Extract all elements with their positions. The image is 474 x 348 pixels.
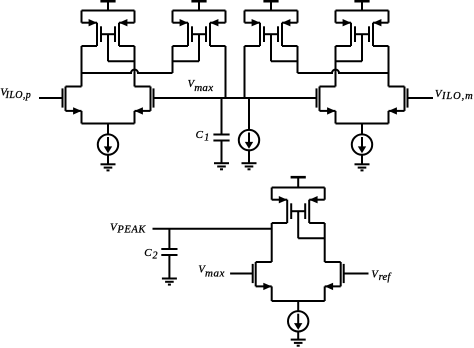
ground (comparator tail) <box>291 340 306 346</box>
wire C2 to ground <box>168 255 170 279</box>
svg-text:C: C <box>196 129 204 141</box>
label capacitor C1 value <box>196 129 210 143</box>
pmos P7 <box>336 19 356 46</box>
wire gate tie (block C) <box>264 34 298 61</box>
nmos M5 <box>253 262 272 290</box>
wire I4 to ground <box>297 332 299 340</box>
wire Vmax to I2 <box>248 98 250 130</box>
pmos P5 <box>245 19 265 46</box>
power VDD (block E) <box>291 176 306 188</box>
wire C1 to ground <box>221 141 223 164</box>
wire block B diode drop <box>172 46 174 73</box>
wire M2 drain to P2 <box>134 46 136 87</box>
wire gate tie (block E) <box>291 211 325 238</box>
wire node Vmax rail <box>154 97 317 99</box>
pmos P4 <box>206 19 226 46</box>
ground (right tail) <box>355 164 370 170</box>
pmos P10 <box>305 196 325 223</box>
pmos P6 <box>278 19 298 46</box>
ground (left tail) <box>101 164 116 170</box>
power VDD (block B) <box>191 0 206 11</box>
svg-text:PEAK: PEAK <box>116 225 146 236</box>
wire left tail <box>82 111 135 135</box>
svg-text:2: 2 <box>153 250 158 261</box>
ground (C1) <box>214 163 229 169</box>
current source I4 (comparator tail) <box>288 311 308 331</box>
wire gate tie (block D) <box>336 34 370 61</box>
wire I1 to ground <box>107 155 109 165</box>
svg-text:max: max <box>205 268 225 280</box>
wire Vref input <box>344 273 369 275</box>
wire node VPEAK <box>153 228 272 230</box>
nmos M6 <box>325 262 344 290</box>
wire I2 to ground <box>248 150 250 163</box>
power VDD (block D) <box>354 0 369 11</box>
wire gate tie (block B) <box>173 34 207 61</box>
ground (C2) <box>162 279 177 285</box>
wire Vmax to C1 <box>221 98 223 135</box>
wire VDD rail (block E) <box>272 188 325 200</box>
wire M5 drain to P9 <box>271 223 273 262</box>
wire block B output to Vmax <box>225 46 227 98</box>
svg-text:ref: ref <box>379 272 393 283</box>
wire I3 to ground <box>361 155 363 165</box>
label node VILO,p <box>0 86 31 100</box>
power VDD (block A) <box>100 0 115 11</box>
pmos P8 <box>369 19 389 46</box>
wire VDD rail (block B) <box>173 11 226 23</box>
pmos P9 <box>272 196 292 223</box>
wire right tail <box>336 111 389 135</box>
wire VDD rail (block A) <box>82 11 135 23</box>
label node VILO,m <box>435 88 474 102</box>
wire block C output to Vmax <box>244 46 246 98</box>
wire VILO,p input <box>39 97 63 99</box>
wire M3 drain to P7 <box>335 46 337 87</box>
svg-text:ILO,m: ILO,m <box>441 91 474 102</box>
current source I1 (left tail) <box>98 134 118 154</box>
wire bottom tail <box>272 286 325 311</box>
pmos P3 <box>173 19 193 46</box>
label node Vmax (comparator input) <box>198 264 224 279</box>
svg-text:1: 1 <box>204 133 209 144</box>
nmos M3 <box>317 87 336 115</box>
current source I3 (right tail) <box>352 134 372 154</box>
wire gate tie (block A) <box>101 34 135 61</box>
wire VILO,m input <box>408 97 434 99</box>
power VDD (block C) <box>263 0 278 11</box>
wire block C diode drop <box>297 46 299 73</box>
wire VDD rail (block C) <box>245 11 298 23</box>
wire right mirror link (hop at x=335.5) <box>298 70 389 74</box>
wire VPEAK to C2 <box>168 229 170 249</box>
wire M6 drain to P10 <box>324 223 326 262</box>
capacitor C2 <box>161 249 177 255</box>
wire VDD rail (block D) <box>336 11 389 23</box>
nmos M2 <box>135 87 154 115</box>
label capacitor C2 value <box>144 247 157 261</box>
pmos P2 <box>115 19 135 46</box>
nmos M1 <box>63 87 82 115</box>
svg-text:ILO,p: ILO,p <box>5 90 32 101</box>
capacitor C1 <box>213 135 229 141</box>
wire M4 drain to P8 <box>388 46 390 87</box>
wire left mirror link (hop at x=134.5) <box>82 70 173 74</box>
label node Vmax <box>188 79 214 94</box>
nmos M4 <box>389 87 408 115</box>
svg-text:max: max <box>194 82 213 94</box>
label node VPEAK <box>110 221 146 235</box>
label node Vref <box>371 270 392 284</box>
wire Vmax input (comparator) <box>230 273 253 275</box>
wire M1 drain to P1 <box>81 46 83 87</box>
current source I2 (discharge) <box>239 130 259 150</box>
ground (I2) <box>242 163 257 169</box>
svg-text:C: C <box>144 247 152 259</box>
pmos P1 <box>82 19 102 46</box>
